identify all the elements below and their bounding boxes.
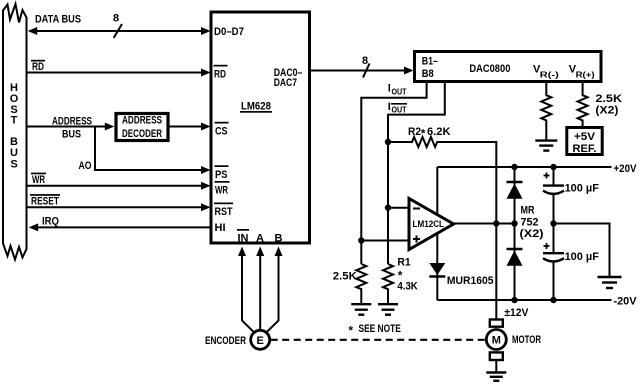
node output MR752 mid (511, 220, 517, 226)
label ENCODER (205, 335, 246, 347)
label +-12V (504, 307, 529, 319)
wire capacitor column bottom (553, 262, 555, 300)
diode MR752 top (507, 182, 523, 199)
svg-text:HI: HI (215, 222, 226, 234)
wire encoder feedback B (267, 254, 279, 332)
host bus label (10, 82, 19, 171)
svg-text:DECODER: DECODER (122, 128, 162, 140)
svg-text:ADDRESS: ADDRESS (122, 115, 162, 127)
encoder E circle (251, 330, 270, 349)
resistor R1 4.3K (383, 264, 393, 304)
wire IOUT-bar (388, 83, 445, 264)
svg-text:LM628: LM628 (241, 100, 271, 112)
wire minus input (388, 207, 408, 209)
IC LM628 box (211, 12, 310, 243)
op-amp plus sign (413, 236, 420, 243)
wire motor to ground (495, 360, 497, 372)
svg-text:OUT: OUT (392, 105, 407, 114)
svg-text:U: U (10, 147, 18, 159)
svg-text:6.2K: 6.2K (427, 126, 451, 138)
svg-text:100 µF: 100 µF (565, 251, 600, 263)
svg-text:*: * (421, 127, 426, 141)
RD arrowhead (201, 69, 211, 77)
address decoder text (122, 115, 162, 140)
svg-text:+20V: +20V (614, 163, 638, 175)
label E (257, 335, 264, 347)
C2 plus sign (544, 243, 550, 249)
label 100uF bottom (565, 251, 600, 263)
svg-text:S: S (10, 159, 17, 171)
svg-text:MUR1605: MUR1605 (447, 275, 494, 287)
svg-text:ENCODER: ENCODER (205, 335, 246, 347)
ground motor (486, 373, 506, 381)
data bus label (35, 14, 81, 26)
DAC0800 labels (422, 55, 595, 80)
wire IRQ (36, 226, 210, 228)
node MR bottom (511, 297, 517, 303)
svg-text:2.5K: 2.5K (595, 93, 622, 105)
svg-text:B1–: B1– (422, 55, 438, 67)
svg-text:RD: RD (214, 69, 226, 81)
label 100uF top (565, 182, 600, 194)
WR arrowhead (201, 182, 211, 190)
svg-text:PS: PS (215, 169, 228, 181)
svg-text:+5V: +5V (574, 131, 596, 143)
svg-text:A: A (256, 233, 264, 245)
wire capacitor column top (553, 167, 555, 185)
svg-text:I: I (388, 101, 391, 113)
bus width 8 marker (dac) (363, 64, 370, 78)
motor brush top (490, 320, 503, 327)
svg-text:CS: CS (215, 126, 228, 138)
svg-text:2.5K: 2.5K (333, 271, 357, 283)
motor brush bottom (490, 352, 503, 360)
wire +20V rail (437, 166, 611, 168)
label MR 752 (X2) (520, 205, 544, 241)
svg-text:DATA BUS: DATA BUS (35, 14, 81, 26)
svg-text:R2: R2 (408, 126, 421, 138)
svg-text:100 µF: 100 µF (565, 182, 600, 194)
A0 arrowhead (201, 166, 211, 174)
svg-text:AO: AO (79, 160, 92, 172)
svg-text:±12V: ±12V (504, 307, 529, 319)
svg-text:R(+): R(+) (576, 71, 595, 80)
label +20V (614, 163, 638, 175)
wire encoder feedback A (259, 254, 261, 330)
A arrowhead (256, 247, 264, 257)
svg-text:R1: R1 (397, 256, 410, 268)
IC DAC0800 box (415, 52, 602, 82)
svg-text:M: M (492, 335, 501, 347)
wire WR (27, 185, 205, 187)
svg-text:LM12CL: LM12CL (413, 219, 445, 230)
svg-text:DAC0800: DAC0800 (469, 63, 510, 75)
label AO (79, 160, 92, 172)
wire RD (27, 72, 205, 74)
svg-text:-20V: -20V (614, 295, 638, 307)
address decoder box (116, 114, 168, 141)
label WR (bus) (31, 173, 46, 186)
wire motor drop (495, 224, 497, 320)
svg-text:(X2): (X2) (595, 105, 618, 117)
label M (492, 335, 501, 347)
motor M circle (486, 330, 506, 350)
svg-text:R(-): R(-) (540, 71, 559, 80)
node plus input (358, 237, 364, 243)
label 8 (dac) (362, 55, 368, 67)
svg-text:MR: MR (521, 205, 535, 217)
ground VR- (535, 141, 557, 151)
svg-text:SEE NOTE: SEE NOTE (359, 323, 401, 335)
label IOUT-bar (388, 101, 407, 114)
C1 plus sign (544, 173, 550, 179)
ground right (598, 277, 622, 288)
label IRQ (42, 216, 59, 228)
wire encoder feedback IN (242, 254, 254, 332)
svg-text:D0–D7: D0–D7 (214, 26, 244, 38)
label R2*6.2K (408, 126, 451, 141)
svg-text:8: 8 (113, 13, 119, 25)
+5V REF box (567, 128, 602, 155)
svg-text:IN: IN (238, 233, 249, 245)
op-amp U1 LM12CL (409, 199, 454, 250)
wire address bus (27, 126, 107, 128)
resistor R2 6.2K (388, 137, 496, 223)
svg-text:WR: WR (32, 174, 45, 186)
svg-text:ADDRESS: ADDRESS (52, 115, 92, 127)
node output R2/motor (493, 220, 499, 226)
label -20V (614, 295, 638, 307)
wire IOUT (361, 83, 426, 264)
resistor 2.5K left (356, 264, 366, 304)
dashed encoder-motor link (271, 339, 486, 341)
label 2.5K left (333, 271, 357, 283)
label 2.5K (X2) (595, 93, 622, 117)
svg-text:RESET: RESET (31, 196, 59, 208)
+5V REF text (573, 131, 597, 155)
diode MR752 bottom (507, 249, 523, 266)
label ADDRESS BUS (52, 115, 92, 140)
svg-text:*: * (348, 324, 353, 338)
svg-text:T: T (11, 115, 18, 127)
svg-text:752: 752 (521, 216, 539, 228)
svg-text:E: E (257, 335, 264, 347)
wire RESET (27, 206, 205, 208)
svg-text:RST: RST (215, 206, 233, 218)
wire data bus (34, 30, 204, 32)
capacitor C1 100uF (543, 186, 564, 194)
resistor VR- 2.5K (541, 83, 551, 140)
node cap mid (550, 220, 556, 226)
svg-text:DAC7: DAC7 (274, 77, 297, 89)
svg-text:BUS: BUS (62, 128, 81, 140)
ground 2.5K left (351, 304, 371, 315)
LM628 pin labels (214, 26, 303, 245)
svg-text:I: I (388, 83, 391, 95)
node minus input (385, 205, 391, 211)
node cap bottom (550, 297, 556, 303)
label RESET (30, 194, 60, 207)
ground R1 (378, 304, 398, 315)
RESET arrowhead (201, 203, 211, 211)
address arrowhead into decoder (105, 123, 115, 131)
op-amp minus sign (413, 208, 420, 210)
capacitor C2 100uF (543, 253, 564, 261)
svg-text:B8: B8 (422, 68, 434, 80)
IN arrowhead (238, 247, 246, 257)
host bus bar (3, 4, 27, 260)
data bus arrowheads (28, 27, 211, 35)
label IOUT (388, 83, 407, 97)
svg-text:8: 8 (362, 55, 368, 67)
node cap top (550, 164, 556, 170)
svg-text:4.3K: 4.3K (397, 281, 417, 293)
svg-text:REF.: REF. (573, 143, 597, 155)
wire op-amp output (452, 223, 515, 225)
wire plus input (361, 240, 408, 242)
label LM12CL (413, 219, 445, 230)
node MR top (511, 164, 517, 170)
label RD (bus) (31, 60, 45, 73)
label R1 * 4.3K (397, 256, 417, 292)
DAC bus arrowhead (404, 67, 414, 75)
wire mid to ground (554, 224, 610, 278)
svg-text:WR: WR (215, 185, 228, 197)
svg-text:B: B (275, 233, 283, 245)
svg-text:OUT: OUT (392, 88, 407, 97)
wire clamp vertical (behind op-amp) (436, 167, 438, 300)
wire LM628 to DAC bus (310, 70, 406, 72)
label SEE NOTE (348, 323, 400, 338)
label MOTOR (512, 334, 541, 346)
label 8 (113, 13, 119, 25)
wire capacitor column mid (553, 194, 555, 253)
B arrowhead (275, 247, 283, 257)
svg-text:(X2): (X2) (520, 228, 544, 240)
resistor VR+ 2.5K (578, 83, 588, 128)
label MUR1605 (447, 275, 494, 287)
bus width 8 marker (114, 24, 122, 38)
svg-text:MOTOR: MOTOR (512, 334, 541, 346)
IRQ arrowhead (29, 223, 39, 231)
wire -20V rail (437, 299, 611, 301)
svg-text:IRQ: IRQ (42, 216, 59, 228)
diode MUR1605 (429, 263, 445, 277)
node R2 tap (385, 139, 391, 145)
wire A0 branch (95, 127, 204, 171)
wire MR752 column (514, 167, 516, 300)
svg-text:RD: RD (32, 61, 44, 73)
wire decoder to CS (168, 126, 204, 128)
CS arrowhead (201, 123, 211, 131)
